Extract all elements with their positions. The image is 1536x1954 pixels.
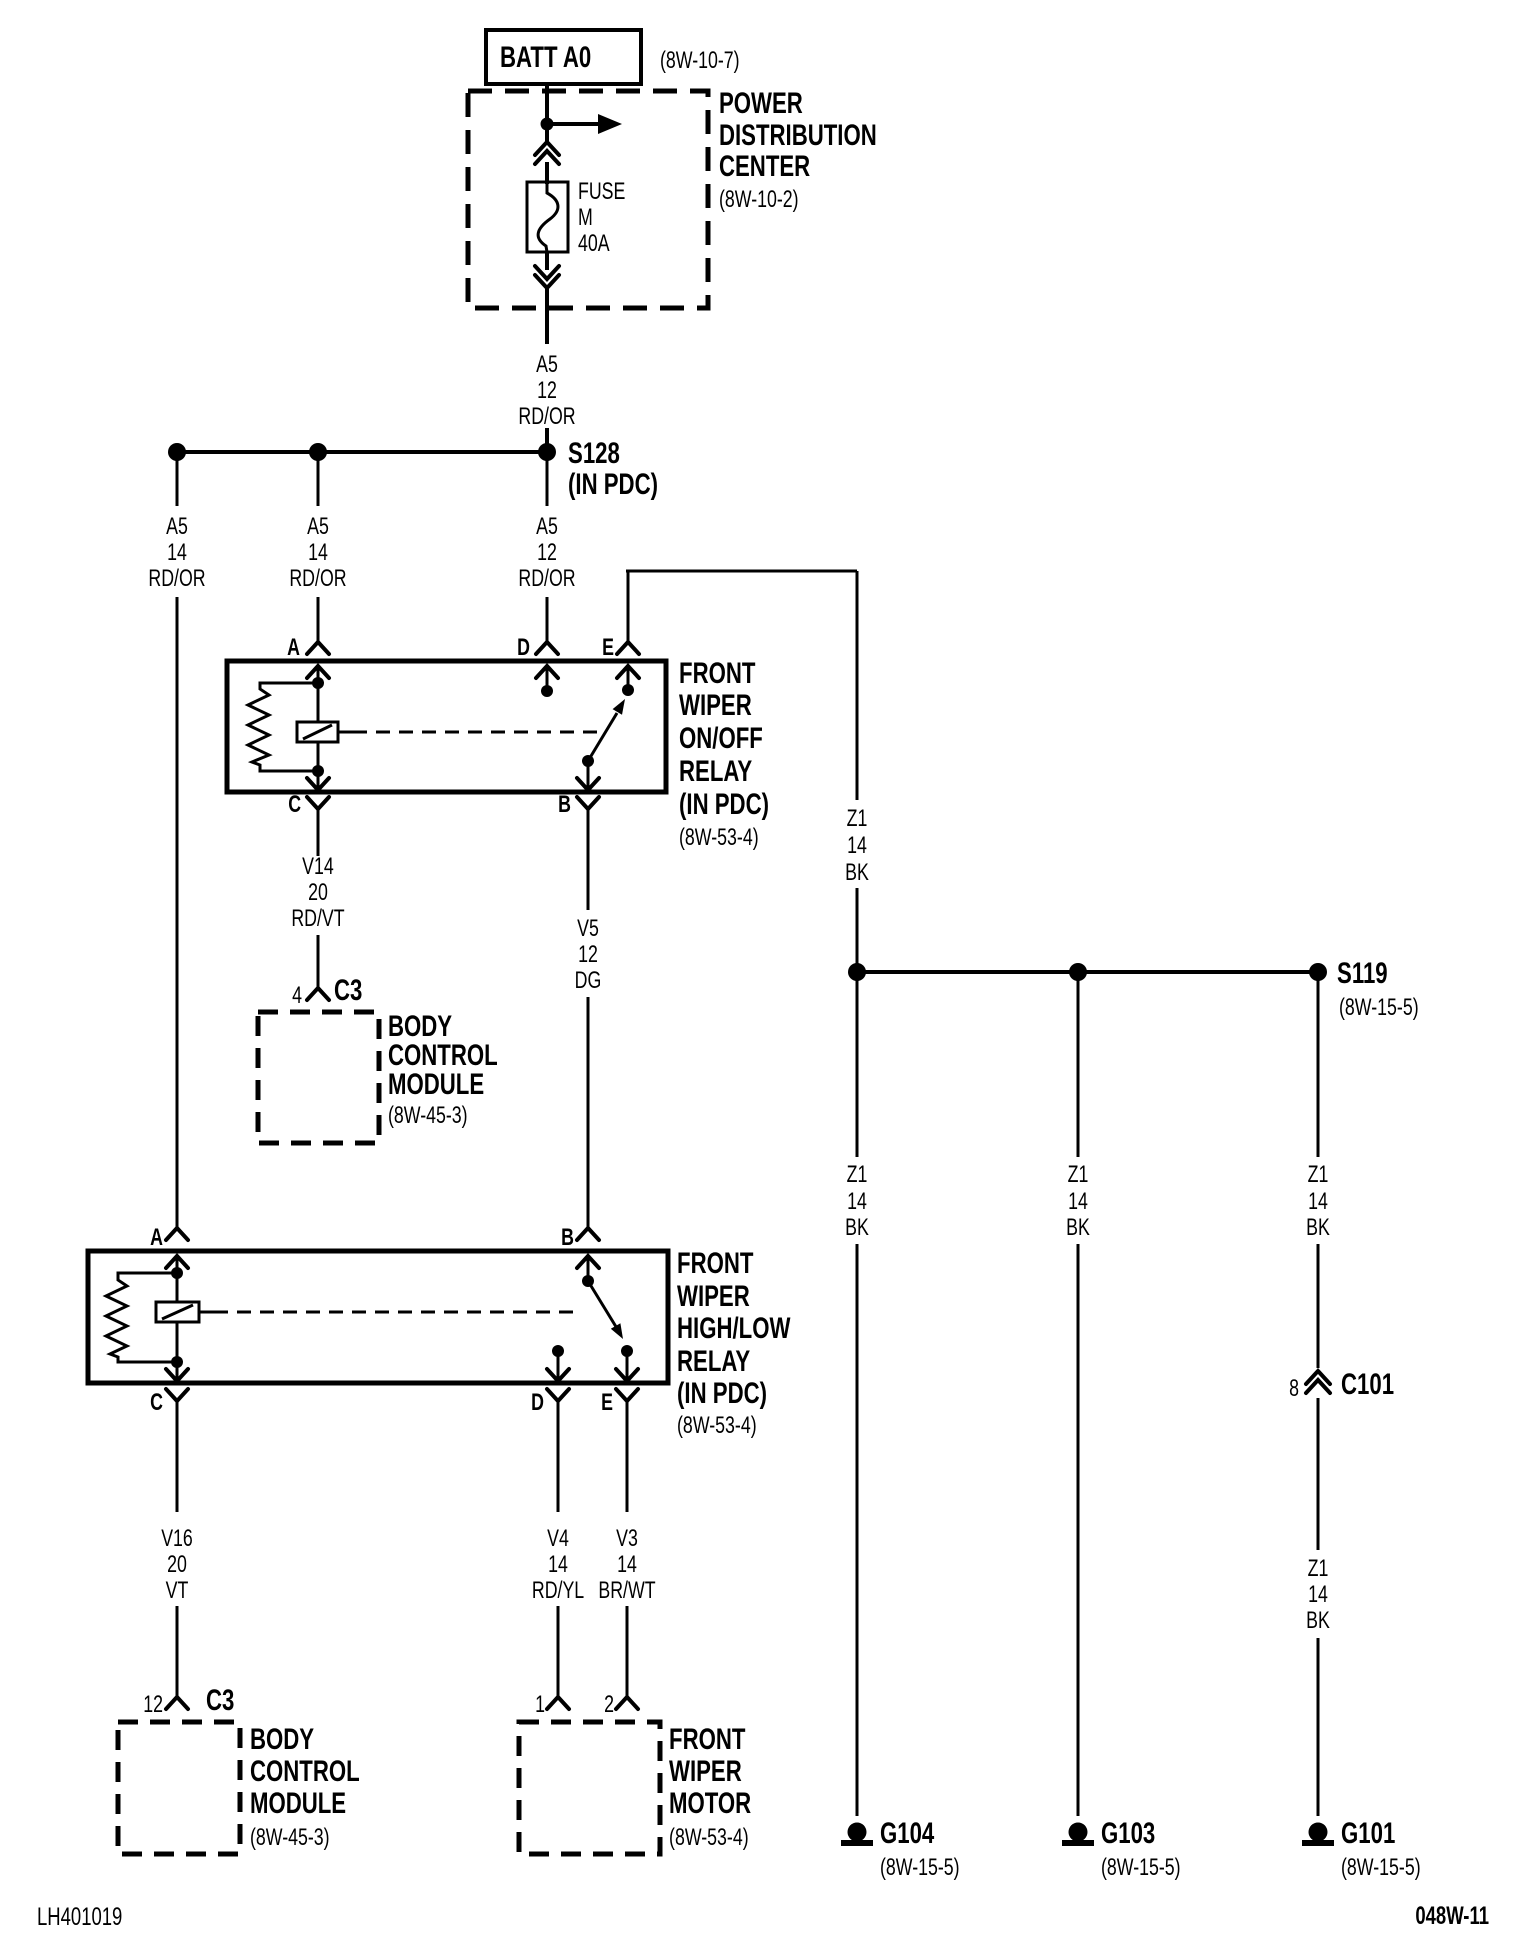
wire label A5 12 RD/OR (feed) <box>518 352 575 430</box>
connector C101 label <box>1341 1367 1394 1401</box>
junction dot S119 column 2 <box>1069 963 1087 981</box>
svg-text:BK: BK <box>1306 1215 1330 1241</box>
wire label V14 20 RD/VT <box>291 854 344 932</box>
connector C101 chevrons (double, up) <box>1306 1371 1330 1393</box>
relay1 switch blade with arrow <box>588 699 625 761</box>
svg-text:B: B <box>561 1225 574 1251</box>
wire relay2 pin D down <box>557 1401 560 1512</box>
svg-text:A5: A5 <box>166 514 188 540</box>
svg-text:Z1: Z1 <box>847 1162 868 1188</box>
wire branch 2 stub below S128 <box>317 452 320 506</box>
svg-text:D: D <box>531 1390 544 1416</box>
svg-text:MOTOR: MOTOR <box>669 1786 751 1820</box>
connector C3 label (lower) <box>206 1683 234 1717</box>
relay2 pin E label <box>601 1390 613 1416</box>
svg-text:M: M <box>578 205 593 231</box>
wire ground column 3 to G101 <box>1317 1638 1320 1816</box>
svg-text:20: 20 <box>308 880 328 906</box>
relay2 switch blade with arrow <box>588 1281 623 1339</box>
svg-text:12: 12 <box>143 1692 163 1718</box>
connector C3 pin 4 (female) <box>307 988 329 1000</box>
svg-text:BODY: BODY <box>250 1722 314 1756</box>
junction dot S128 branch 2 <box>309 443 327 461</box>
wire V16 down to BCM connector C3 <box>176 1606 179 1697</box>
svg-text:CENTER: CENTER <box>719 149 810 183</box>
relay1 pin B connector pair <box>577 761 599 809</box>
motor connector pin 2 (female) <box>616 1697 638 1709</box>
ground G103 symbol <box>1062 1823 1094 1847</box>
connector chevrons PDC exit (double, down) <box>535 266 559 288</box>
svg-text:LH401019: LH401019 <box>37 1902 122 1930</box>
svg-text:2: 2 <box>604 1692 614 1718</box>
pin number 2 label <box>604 1692 614 1718</box>
svg-text:RD/OR: RD/OR <box>289 566 346 592</box>
svg-text:(IN PDC): (IN PDC) <box>679 787 769 821</box>
svg-text:RD/OR: RD/OR <box>148 566 205 592</box>
relay2 pin B label <box>561 1225 574 1251</box>
svg-text:14: 14 <box>1308 1189 1328 1215</box>
arrow tap to other circuits <box>547 114 622 134</box>
svg-text:(8W-10-2): (8W-10-2) <box>719 187 799 213</box>
wire label Z1 14 BK (column 2) <box>1066 1162 1090 1241</box>
wire label Z1 14 BK (column 3 upper) <box>1306 1162 1330 1241</box>
svg-text:G101: G101 <box>1341 1816 1395 1850</box>
wire relay1 pin C down <box>317 809 320 856</box>
wire label Z1 14 BK (column 1) <box>845 1162 869 1241</box>
wire ground run down (upper) <box>856 571 859 800</box>
splice bus S119 <box>857 970 1318 974</box>
wire V3 down to wiper motor pin 2 <box>626 1606 629 1697</box>
svg-text:(8W-53-4): (8W-53-4) <box>677 1413 757 1439</box>
relay1 pin D connector pair <box>536 642 558 691</box>
ground G104 symbol <box>841 1823 873 1847</box>
svg-text:12: 12 <box>578 942 598 968</box>
wire PDC exit down <box>545 288 549 344</box>
svg-text:C3: C3 <box>334 973 362 1007</box>
svg-text:V16: V16 <box>161 1526 193 1552</box>
svg-text:(8W-53-4): (8W-53-4) <box>679 825 759 851</box>
svg-text:D: D <box>517 635 530 661</box>
relay2 armature dashed link <box>199 1311 577 1314</box>
wire V14 down to BCM connector C3 <box>317 935 320 988</box>
wire ground column 1 to G104 <box>856 1244 859 1816</box>
wire V5 down to high/low relay pin B <box>587 997 590 1228</box>
relay2 pin A label <box>150 1225 163 1251</box>
svg-text:12: 12 <box>537 540 557 566</box>
svg-text:A5: A5 <box>536 352 558 378</box>
svg-text:14: 14 <box>1308 1582 1328 1608</box>
svg-text:WIPER: WIPER <box>677 1279 750 1313</box>
svg-text:14: 14 <box>617 1552 637 1578</box>
sheet number 048W-11 <box>1415 1901 1489 1929</box>
relay2 switch throw dot E <box>621 1345 633 1357</box>
svg-text:14: 14 <box>308 540 328 566</box>
relay2 pin D contact dot <box>552 1345 564 1357</box>
relay2 pin C label <box>150 1390 163 1416</box>
svg-text:HIGH/LOW: HIGH/LOW <box>677 1311 790 1345</box>
relay1 coil wire upper <box>317 683 320 722</box>
svg-text:E: E <box>602 635 614 661</box>
svg-text:14: 14 <box>548 1552 568 1578</box>
svg-text:V5: V5 <box>577 916 599 942</box>
svg-text:1: 1 <box>535 1692 545 1718</box>
svg-text:20: 20 <box>167 1552 187 1578</box>
wire BATT A0 feed into PDC <box>545 84 549 143</box>
svg-text:RD/YL: RD/YL <box>532 1578 585 1604</box>
wire ground column 3 to connector C101 <box>1317 1244 1320 1368</box>
relay2 pin E connector pair <box>616 1351 638 1401</box>
wire on/off relay pin E top run to ground splice <box>626 571 857 642</box>
svg-text:V4: V4 <box>547 1526 569 1552</box>
relay2 coil wire lower <box>176 1322 179 1362</box>
svg-text:WIPER: WIPER <box>669 1754 742 1788</box>
splice bus S128 <box>177 450 547 454</box>
svg-text:ON/OFF: ON/OFF <box>679 721 763 755</box>
relay1 pin A connector pair <box>307 642 329 683</box>
relay2 pin C connector pair <box>166 1362 188 1401</box>
relay2 pin A connector pair <box>166 1228 188 1273</box>
svg-text:BK: BK <box>1306 1608 1330 1634</box>
svg-text:4: 4 <box>292 983 302 1009</box>
relay1 switch common dot <box>582 755 594 767</box>
svg-text:DISTRIBUTION: DISTRIBUTION <box>719 118 877 152</box>
relay1 armature dashed link <box>338 731 597 734</box>
wire branch 2 down to on/off relay pin A <box>317 597 320 642</box>
svg-text:(IN PDC): (IN PDC) <box>677 1376 767 1410</box>
BCM caption BODY CONTROL MODULE (8W-45-3) (lower) <box>250 1722 360 1851</box>
wire C101 down <box>1317 1398 1320 1550</box>
wire label A5 14 RD/OR (branch 2) <box>289 514 346 592</box>
BCM caption BODY CONTROL MODULE (8W-45-3) (upper) <box>388 1009 498 1129</box>
relay2 pin B contact dot <box>582 1275 594 1287</box>
relay2 coil K2 <box>156 1302 199 1322</box>
wire relay1 pin B down <box>587 809 590 910</box>
wire relay2 pin E down <box>626 1401 629 1512</box>
svg-text:(8W-45-3): (8W-45-3) <box>388 1103 468 1129</box>
junction dot S128 branch 1 <box>168 443 186 461</box>
svg-text:40A: 40A <box>578 231 610 257</box>
battery feed label BATT A0 <box>486 30 641 84</box>
svg-text:B: B <box>558 792 571 818</box>
svg-text:MODULE: MODULE <box>388 1067 484 1101</box>
svg-text:RD/OR: RD/OR <box>518 566 575 592</box>
wire branch 1 down to high/low relay pin A <box>176 597 179 1228</box>
svg-text:S128: S128 <box>568 436 620 470</box>
wire branch 1 stub below S128 <box>176 452 179 506</box>
relay1 pin E label <box>602 635 614 661</box>
wire label A5 14 RD/OR (branch 1) <box>148 514 205 592</box>
svg-text:Z1: Z1 <box>1308 1162 1329 1188</box>
svg-text:A: A <box>150 1225 163 1251</box>
relay K1 FRONT WIPER ON/OFF RELAY box <box>227 661 666 792</box>
wire ground column 1 upper <box>856 972 859 1157</box>
svg-text:RD/OR: RD/OR <box>518 404 575 430</box>
fuse M 40A <box>527 182 568 252</box>
ground label G101 (8W-15-5) <box>1341 1816 1421 1881</box>
relay2 suppression resistor <box>106 1273 177 1362</box>
power distribution center dashed box <box>468 91 708 308</box>
wire V4 down to wiper motor pin 1 <box>557 1606 560 1697</box>
relay1 coil bottom junction dot <box>312 765 324 777</box>
svg-text:14: 14 <box>1068 1189 1088 1215</box>
svg-text:A: A <box>287 635 300 661</box>
relay1 caption FRONT WIPER ON/OFF RELAY (IN PDC) (8W-53-4) <box>679 656 769 851</box>
svg-text:C: C <box>150 1390 163 1416</box>
junction dot PDC feed <box>541 118 554 131</box>
svg-text:12: 12 <box>537 378 557 404</box>
wire label V3 14 BR/WT <box>598 1526 655 1604</box>
pin number 12 label <box>143 1692 163 1718</box>
connector chevrons PDC feed (double, up) <box>535 142 559 164</box>
svg-text:Z1: Z1 <box>847 806 868 832</box>
wire label V4 14 RD/YL <box>532 1526 585 1604</box>
svg-text:DG: DG <box>575 968 602 994</box>
pin number 4 label <box>292 983 302 1009</box>
wire label Z1 14 BK (column 3 lower) <box>1306 1556 1330 1634</box>
wire label to splice S128 <box>545 428 549 452</box>
relay2 coil bottom junction dot <box>171 1356 183 1368</box>
svg-text:V3: V3 <box>616 1526 638 1552</box>
body control module dashed box (lower) <box>118 1722 240 1854</box>
svg-text:POWER: POWER <box>719 86 803 120</box>
svg-text:FRONT: FRONT <box>677 1246 753 1280</box>
relay1 pin E contact dot <box>622 684 634 696</box>
svg-text:BATT A0: BATT A0 <box>500 40 591 74</box>
svg-text:RELAY: RELAY <box>677 1344 751 1378</box>
fuse value label FUSE M 40A <box>578 179 625 257</box>
PDC caption POWER DISTRIBUTION CENTER (8W-10-2) <box>719 86 877 213</box>
relay1 suppression resistor <box>248 683 318 771</box>
relay1 pin C label <box>288 792 301 818</box>
svg-text:BR/WT: BR/WT <box>598 1578 655 1604</box>
svg-text:RELAY: RELAY <box>679 754 753 788</box>
motor caption FRONT WIPER MOTOR (8W-53-4) <box>669 1722 751 1851</box>
relay2 coil top junction dot <box>171 1267 183 1279</box>
front wiper motor dashed box <box>519 1722 660 1854</box>
relay2 pin D connector pair <box>547 1351 569 1401</box>
svg-text:A5: A5 <box>307 514 329 540</box>
svg-text:(8W-15-5): (8W-15-5) <box>1339 995 1419 1021</box>
wire main stub below S128 <box>546 452 549 506</box>
wire ground column 3 upper <box>1317 972 1320 1157</box>
wire relay2 pin C down <box>176 1401 179 1512</box>
splice label S119 (8W-15-5) <box>1337 956 1419 1021</box>
motor connector pin 1 (female) <box>547 1697 569 1709</box>
relay K2 FRONT WIPER HIGH/LOW RELAY box <box>88 1251 668 1383</box>
svg-text:(8W-15-5): (8W-15-5) <box>1341 1855 1421 1881</box>
svg-text:BK: BK <box>845 860 869 886</box>
svg-text:G104: G104 <box>880 1816 935 1850</box>
svg-text:V14: V14 <box>302 854 334 880</box>
wire ground column 2 to G103 <box>1077 1244 1080 1816</box>
relay1 pin E connector pair <box>617 642 639 690</box>
relay1 coil top junction dot <box>312 677 324 689</box>
svg-text:BK: BK <box>1066 1215 1090 1241</box>
svg-text:BK: BK <box>845 1215 869 1241</box>
svg-text:A5: A5 <box>536 514 558 540</box>
sheet number LH401019 <box>37 1902 122 1930</box>
svg-text:MODULE: MODULE <box>250 1786 346 1820</box>
wire fuse to exit chevrons <box>545 252 549 270</box>
svg-text:FRONT: FRONT <box>679 656 755 690</box>
relay2 caption FRONT WIPER HIGH/LOW RELAY (IN PDC) (8W-53-4) <box>677 1246 790 1439</box>
svg-text:C101: C101 <box>1341 1367 1394 1401</box>
svg-text:(8W-10-7): (8W-10-7) <box>660 48 740 74</box>
relay1 coil K1 <box>297 722 338 742</box>
svg-text:14: 14 <box>847 833 867 859</box>
ground label G104 (8W-15-5) <box>880 1816 960 1881</box>
svg-text:(8W-53-4): (8W-53-4) <box>669 1825 749 1851</box>
wire label V16 20 VT <box>161 1526 193 1604</box>
relay1 pin D contact dot <box>541 685 553 697</box>
pin number 1 label <box>535 1692 545 1718</box>
relay1 pin B label <box>558 792 571 818</box>
relay1 pin D label <box>517 635 530 661</box>
svg-text:8: 8 <box>1289 1376 1299 1402</box>
junction dot S128 <box>538 443 556 461</box>
relay1 pin C connector pair <box>307 771 329 809</box>
relay2 pin B connector pair <box>577 1228 599 1281</box>
junction dot S119 column 1 <box>848 963 866 981</box>
wire label Z1 14 BK (upper run) <box>845 806 869 886</box>
svg-text:Z1: Z1 <box>1068 1162 1089 1188</box>
wire ground column 2 upper <box>1077 972 1080 1157</box>
connector C3 label <box>334 973 362 1007</box>
connector C3 pin 12 (female) <box>166 1697 188 1709</box>
wire label V5 12 DG <box>575 916 602 994</box>
splice label S128 (IN PDC) <box>568 436 658 501</box>
relay1 coil wire lower <box>317 742 320 771</box>
svg-text:048W-11: 048W-11 <box>1415 1901 1489 1929</box>
body control module dashed box (upper) <box>258 1012 379 1143</box>
svg-text:E: E <box>601 1390 613 1416</box>
ground label G103 (8W-15-5) <box>1101 1816 1181 1881</box>
wire main down to on/off relay pin D <box>546 597 549 642</box>
svg-text:S119: S119 <box>1337 956 1388 990</box>
svg-text:RD/VT: RD/VT <box>291 906 344 932</box>
svg-text:14: 14 <box>847 1189 867 1215</box>
svg-text:Z1: Z1 <box>1308 1556 1329 1582</box>
ground G101 symbol <box>1302 1823 1334 1847</box>
wire ground run to splice S119 <box>856 888 859 972</box>
svg-text:C: C <box>288 792 301 818</box>
svg-text:G103: G103 <box>1101 1816 1155 1850</box>
relay1 pin A label <box>287 635 300 661</box>
wire chevrons to fuse <box>545 162 549 184</box>
junction dot S119 <box>1309 963 1327 981</box>
svg-text:(8W-15-5): (8W-15-5) <box>1101 1855 1181 1881</box>
svg-text:14: 14 <box>167 540 187 566</box>
relay2 coil wire upper <box>176 1273 179 1302</box>
svg-text:FUSE: FUSE <box>578 179 625 205</box>
svg-text:WIPER: WIPER <box>679 688 752 722</box>
svg-text:(8W-45-3): (8W-45-3) <box>250 1825 330 1851</box>
svg-text:VT: VT <box>166 1578 189 1604</box>
svg-text:(8W-15-5): (8W-15-5) <box>880 1855 960 1881</box>
wire label A5 12 RD/OR (main) <box>518 514 575 592</box>
svg-text:(IN PDC): (IN PDC) <box>568 467 658 501</box>
pin number 8 label <box>1289 1376 1299 1402</box>
svg-text:C3: C3 <box>206 1683 234 1717</box>
svg-text:FRONT: FRONT <box>669 1722 745 1756</box>
svg-text:CONTROL: CONTROL <box>250 1754 360 1788</box>
relay2 pin D label <box>531 1390 544 1416</box>
reference (8W-10-7) <box>660 48 740 74</box>
